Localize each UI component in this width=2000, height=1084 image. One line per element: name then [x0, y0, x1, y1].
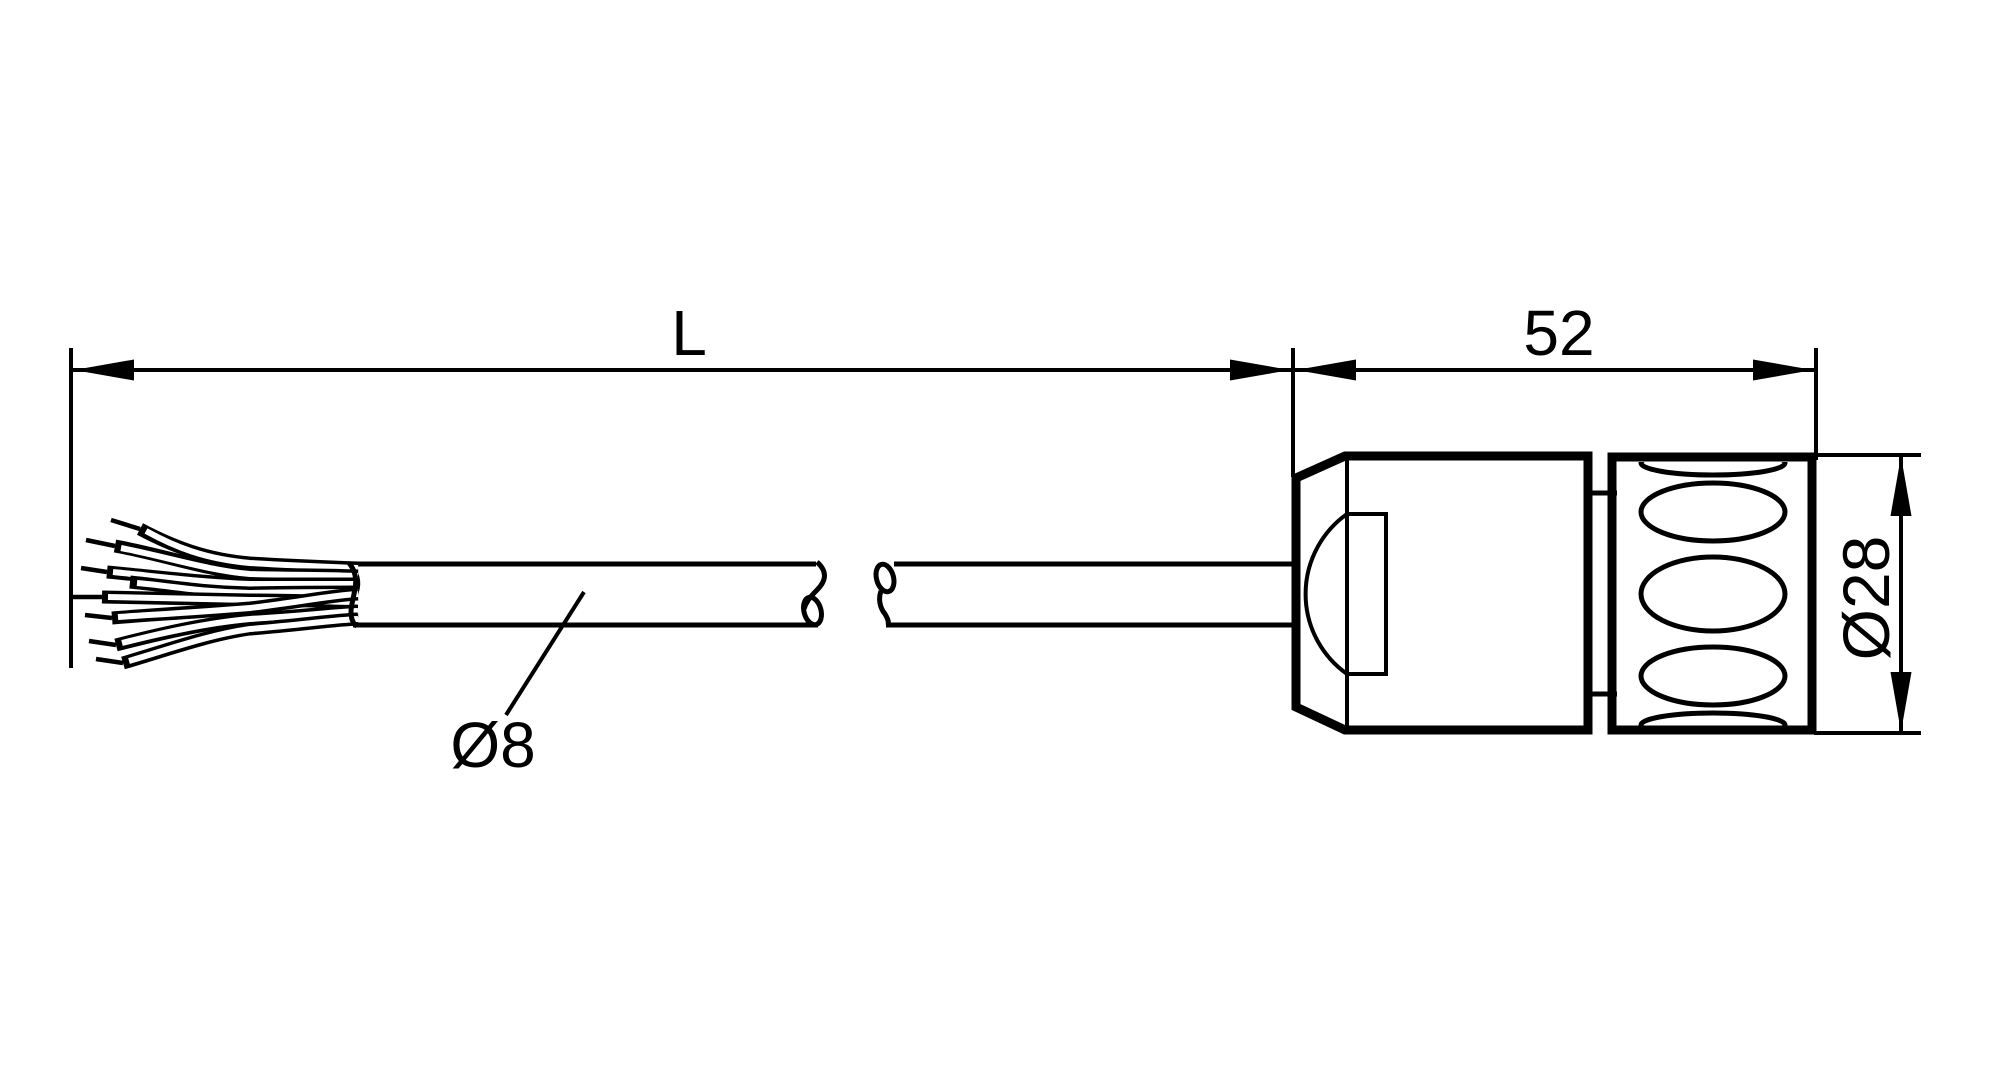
svg-text:Ø8: Ø8 — [450, 709, 535, 781]
arrowhead 52 left — [1296, 360, 1356, 381]
wire 4 tip — [73, 595, 102, 600]
cable entry dome — [1347, 514, 1386, 674]
wire 4 — [102, 597, 358, 602]
svg-text:Ø28: Ø28 — [1829, 536, 1903, 661]
junction tick bottom — [1584, 692, 1617, 697]
wire 7 tip — [96, 659, 123, 663]
knurl ellipse bottom partial — [1641, 713, 1785, 737]
wire 5 tip — [85, 615, 112, 618]
knurl ellipse upper — [1641, 483, 1785, 541]
diameter 28 dimension line — [1899, 457, 1903, 731]
cable break squiggle right piece — [873, 562, 897, 593]
diameter 28 extension line bottom — [1814, 731, 1921, 735]
wire 6 tip — [89, 641, 116, 645]
knurl ellipse middle — [1641, 557, 1785, 631]
diameter 28 extension line top — [1814, 453, 1921, 457]
wire 5 — [112, 594, 358, 618]
wire 6 — [116, 611, 358, 645]
wire 2 tip — [86, 540, 115, 546]
arrowhead L right — [1230, 360, 1290, 381]
arrowhead d28 bottom — [1891, 672, 1912, 732]
dimension line L — [73, 368, 1291, 372]
arrowhead d28 top — [1891, 456, 1912, 516]
cable jacket opening edge — [349, 564, 358, 626]
cable jacket left segment bottom line — [353, 623, 818, 628]
extension line middle (shared between L and 52) — [1291, 348, 1295, 477]
junction tick top — [1584, 491, 1617, 496]
connector front housing inner edge — [1345, 458, 1349, 728]
arrowhead L left — [74, 360, 134, 381]
cable jacket opening lip (over wires) — [349, 563, 356, 626]
extension line left (at cable end) — [69, 348, 73, 668]
arrowhead 52 right — [1753, 360, 1813, 381]
svg-text:L: L — [671, 297, 707, 369]
knurl ellipse top partial — [1641, 451, 1785, 475]
wire 1 — [140, 529, 358, 568]
wire 3 — [107, 572, 358, 584]
wire 7 — [123, 619, 358, 663]
knurl ellipse lower — [1641, 647, 1785, 705]
cable jacket right segment bottom line — [886, 623, 1296, 628]
cable jacket right segment top line — [894, 562, 1296, 567]
dimension line 52 — [1295, 368, 1814, 372]
knurled coupling nut body — [1612, 457, 1812, 730]
cable break squiggle left piece — [804, 562, 825, 609]
cable jacket left segment top line — [349, 562, 816, 567]
knurl ellipses — [1641, 451, 1785, 737]
leader line for cable diameter — [506, 592, 584, 715]
svg-text:52: 52 — [1523, 297, 1594, 369]
wire 3b (partially hidden) — [130, 582, 358, 593]
wire 2 — [115, 546, 358, 576]
extension line right (at connector rear) — [1814, 348, 1818, 460]
connector front housing outline — [1296, 456, 1588, 730]
wire 1 tip — [111, 520, 140, 529]
wire 3 tip — [81, 568, 107, 572]
